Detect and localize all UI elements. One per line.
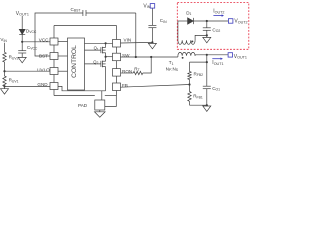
svg-text:DVCC: DVCC [26,28,37,34]
svg-text:NP:NS: NP:NS [166,66,179,72]
svg-text:CO1: CO1 [212,86,220,92]
svg-text:VIN: VIN [143,3,150,9]
svg-text:FB: FB [122,83,128,88]
svg-text:IOUT2: IOUT2 [213,9,224,15]
svg-text:PAD: PAD [78,103,88,108]
svg-text:T1: T1 [169,60,174,66]
svg-text:RUV2: RUV2 [9,55,19,61]
svg-text:CVCC: CVCC [27,45,38,51]
svg-text:IOUT1: IOUT1 [212,60,223,66]
svg-text:VOUT1: VOUT1 [16,11,29,17]
svg-text:CONTROL: CONTROL [71,45,78,78]
svg-text:CBST: CBST [71,7,81,13]
svg-text:BST: BST [39,53,48,58]
svg-text:CIN: CIN [160,18,167,24]
svg-text:SW: SW [122,53,130,58]
svg-text:D1: D1 [186,10,191,16]
svg-text:VOUT2: VOUT2 [234,19,247,25]
svg-text:VIN: VIN [0,37,7,43]
svg-text:Q2: Q2 [93,59,98,65]
svg-text:RT: RT [134,66,139,72]
svg-text:Q1: Q1 [94,46,99,52]
svg-text:VIN: VIN [124,38,132,43]
svg-text:GND: GND [37,82,48,87]
svg-text:UVLO: UVLO [37,67,50,72]
svg-text:VCC: VCC [39,38,49,43]
svg-text:CO2: CO2 [212,27,220,33]
svg-text:RON: RON [122,69,132,74]
svg-text:RFB2: RFB2 [194,71,204,77]
svg-text:VOUT1: VOUT1 [234,54,247,60]
svg-text:RFB1: RFB1 [193,94,203,100]
svg-text:RUV1: RUV1 [9,78,19,84]
